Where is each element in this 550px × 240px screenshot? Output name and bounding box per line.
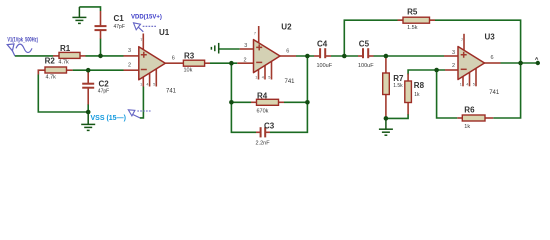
svg-text:1: 1: [460, 82, 462, 86]
svg-text:1.5k: 1.5k: [407, 25, 418, 31]
svg-text:2.2nF: 2.2nF: [256, 140, 271, 146]
svg-text:47pF: 47pF: [114, 24, 125, 30]
svg-text:4: 4: [262, 76, 264, 80]
svg-text:A: A: [535, 56, 539, 62]
svg-text:R7: R7: [393, 74, 404, 83]
svg-text:100uF: 100uF: [358, 63, 374, 69]
svg-text:4: 4: [146, 83, 148, 87]
svg-text:R4: R4: [257, 92, 268, 101]
svg-text:R8: R8: [414, 81, 425, 90]
svg-text:4: 4: [466, 82, 468, 86]
svg-text:3: 3: [452, 50, 455, 56]
svg-text:C1: C1: [114, 14, 125, 23]
svg-text:5: 5: [268, 76, 270, 80]
svg-text:741: 741: [489, 90, 500, 96]
svg-text:6: 6: [491, 55, 494, 61]
svg-text:2: 2: [244, 57, 247, 63]
svg-text:U3: U3: [485, 33, 496, 42]
svg-text:U1: U1: [159, 28, 170, 37]
svg-text:2: 2: [128, 62, 131, 68]
svg-text:U2: U2: [281, 22, 292, 31]
svg-text:5: 5: [473, 82, 475, 86]
svg-text:100uF: 100uF: [317, 63, 333, 69]
svg-text:1: 1: [140, 83, 142, 87]
svg-text:R1: R1: [60, 44, 71, 53]
svg-text:6: 6: [172, 55, 175, 61]
svg-text:1: 1: [255, 76, 257, 80]
svg-text:C4: C4: [317, 39, 328, 48]
svg-text:4.7k: 4.7k: [58, 59, 69, 65]
svg-text:7: 7: [140, 38, 142, 42]
svg-text:3: 3: [128, 48, 131, 54]
svg-text:741: 741: [285, 79, 296, 85]
svg-text:1k: 1k: [464, 124, 470, 130]
svg-text:1k: 1k: [414, 92, 420, 98]
svg-text:5: 5: [153, 83, 155, 87]
svg-text:2: 2: [452, 63, 455, 69]
svg-text:7: 7: [461, 38, 463, 42]
svg-text:R6: R6: [464, 105, 475, 114]
svg-text:47pF: 47pF: [98, 89, 109, 95]
svg-text:670k: 670k: [257, 109, 269, 115]
svg-text:C5: C5: [359, 39, 370, 48]
svg-text:VSS (15—): VSS (15—): [91, 115, 126, 122]
svg-text:R3: R3: [184, 52, 195, 61]
svg-text:VDD(15V+): VDD(15V+): [131, 15, 162, 21]
svg-text:R5: R5: [407, 8, 418, 17]
svg-text:V1(1Vpk_500Hz): V1(1Vpk_500Hz): [7, 37, 38, 43]
svg-text:10k: 10k: [184, 68, 193, 74]
svg-text:7: 7: [254, 32, 256, 36]
svg-text:C3: C3: [264, 122, 275, 131]
svg-text:C2: C2: [99, 80, 110, 89]
svg-text:741: 741: [166, 88, 177, 94]
svg-text:R2: R2: [45, 56, 56, 65]
svg-text:6: 6: [286, 48, 289, 54]
svg-text:4.7k: 4.7k: [46, 74, 57, 80]
svg-text:1.5k: 1.5k: [393, 83, 403, 89]
svg-text:3: 3: [244, 43, 247, 49]
